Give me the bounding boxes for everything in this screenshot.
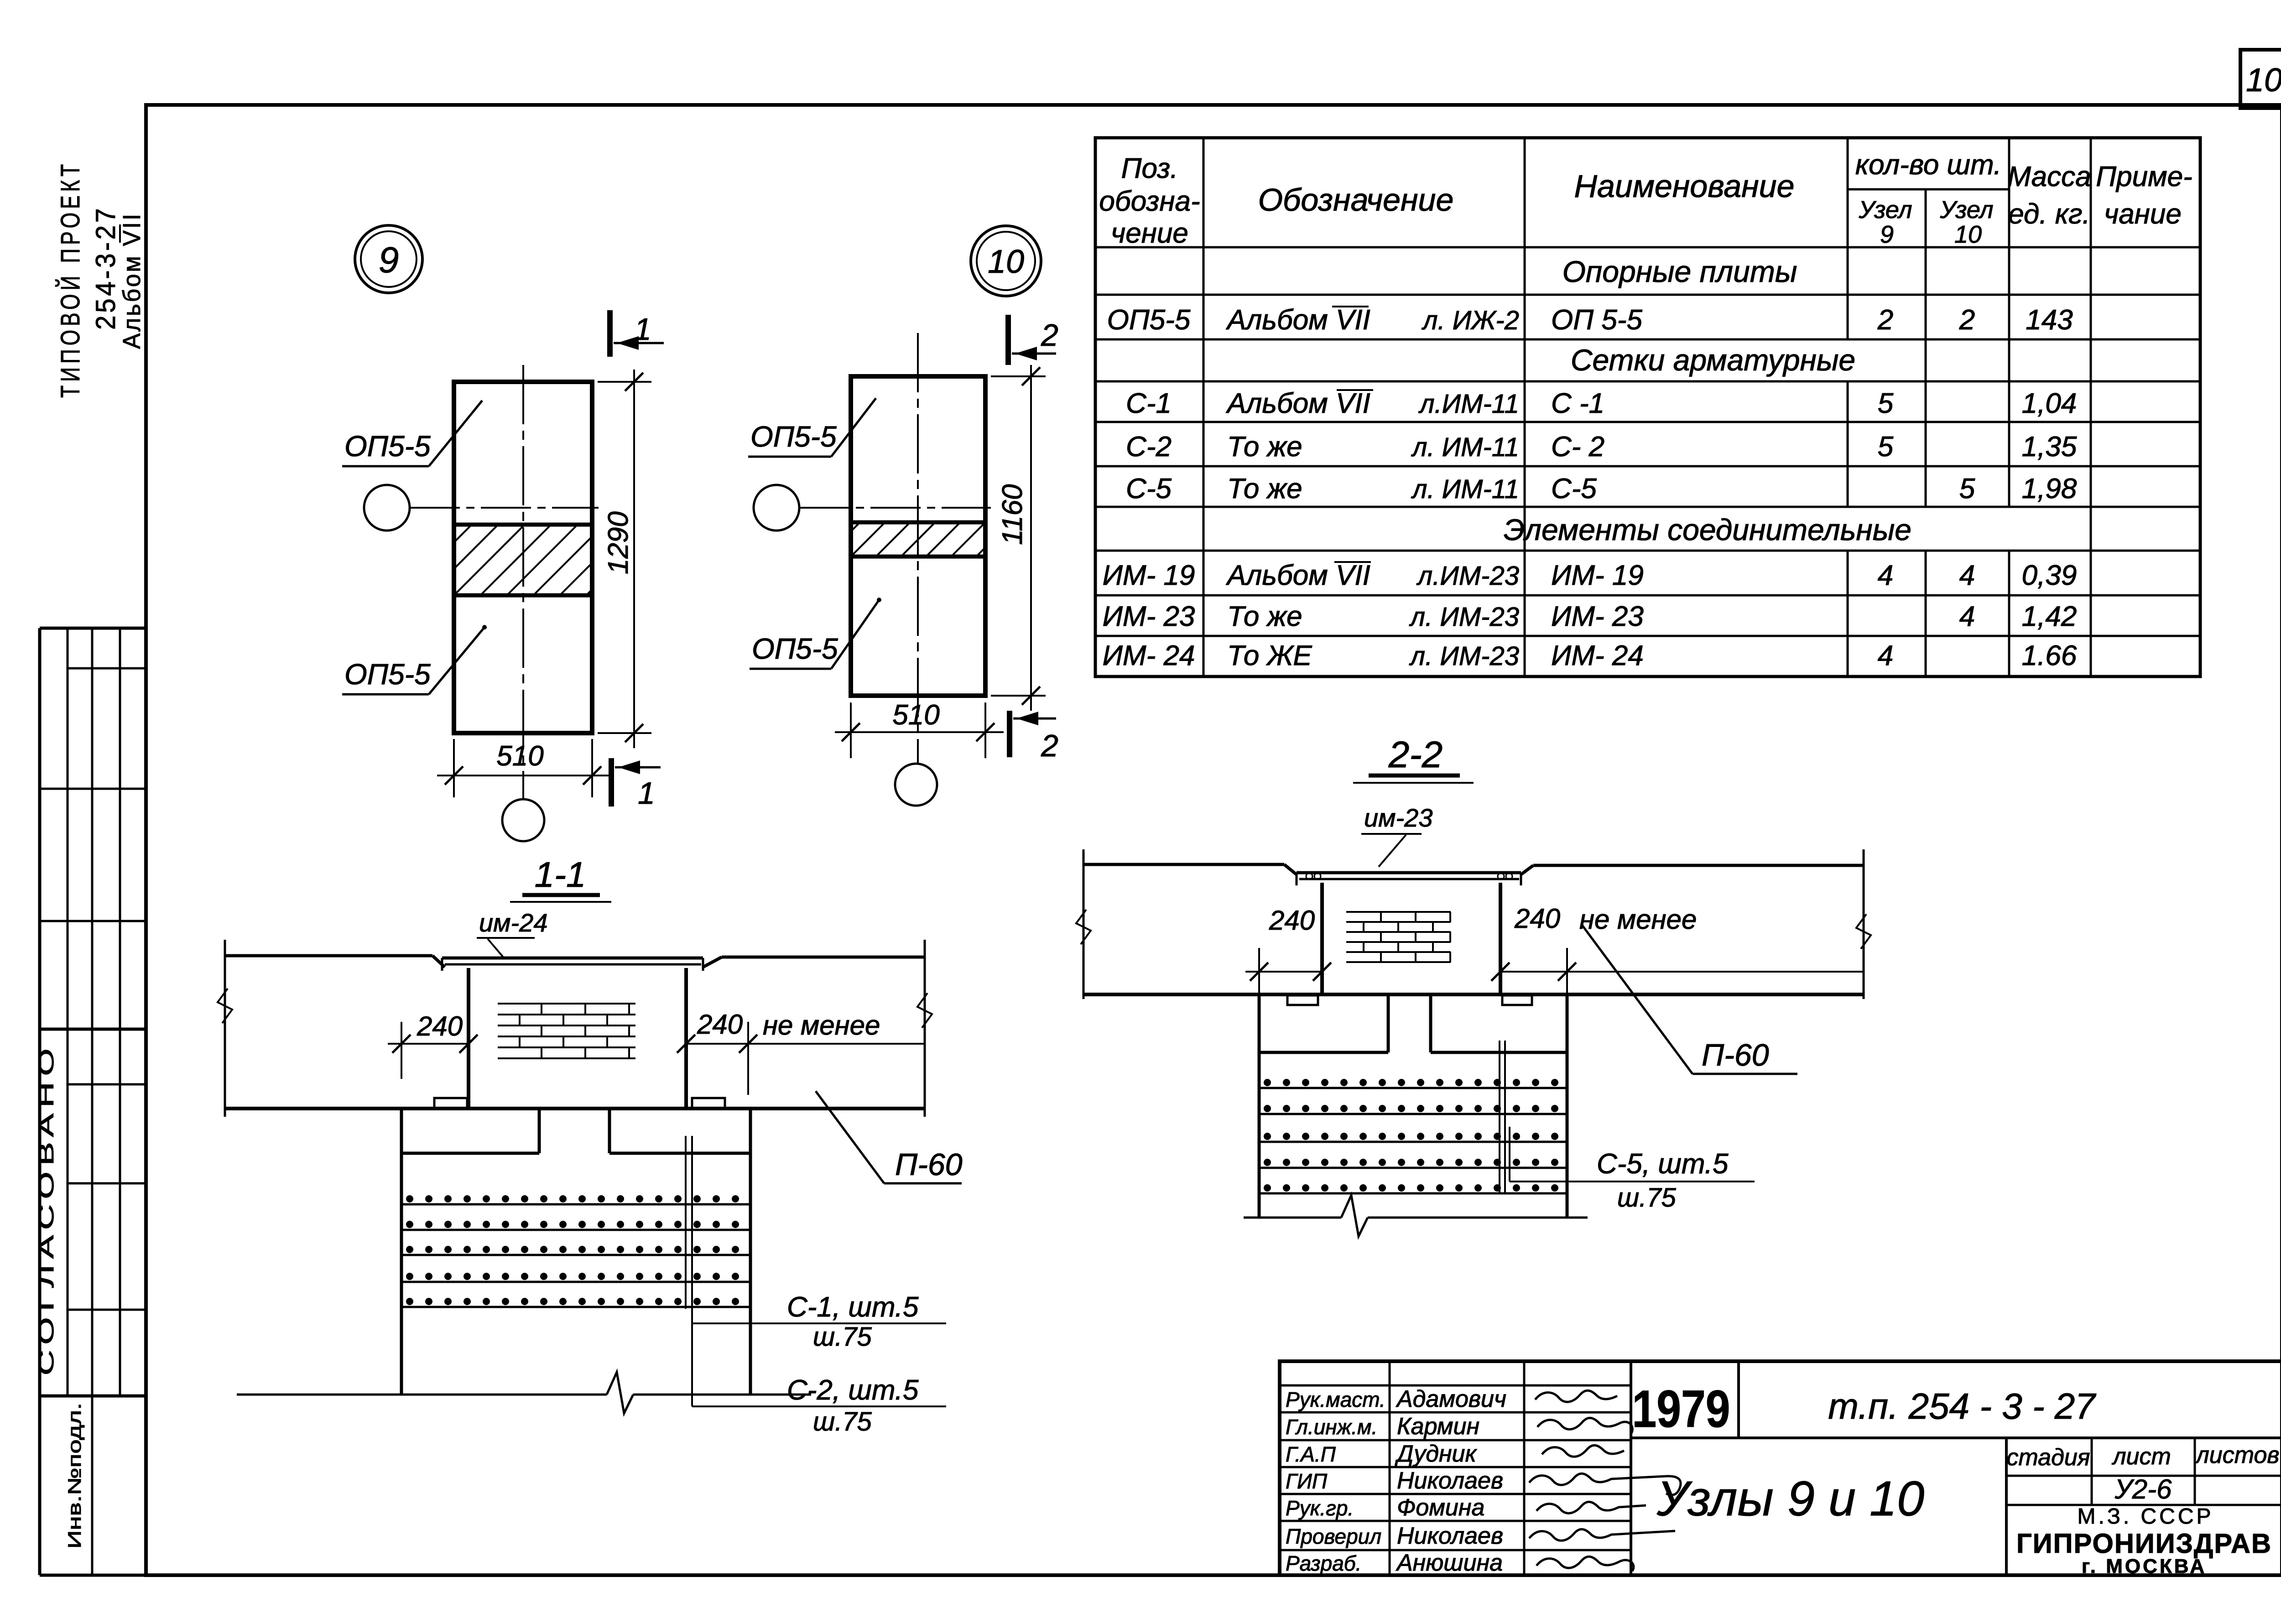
svg-text:2-2: 2-2 <box>1388 734 1443 776</box>
svg-text:Инв.№подл.: Инв.№подл. <box>65 1403 85 1549</box>
svg-text:Дудник: Дудник <box>1395 1441 1477 1467</box>
svg-text:Узел: Узел <box>1939 196 1993 224</box>
svg-text:им-23: им-23 <box>1364 803 1432 832</box>
svg-text:ИМ- 23: ИМ- 23 <box>1551 601 1644 632</box>
svg-text:П-60: П-60 <box>895 1147 963 1182</box>
svg-text:4: 4 <box>1959 601 1975 632</box>
svg-text:Поз.: Поз. <box>1121 153 1178 184</box>
svg-text:5: 5 <box>1959 473 1975 505</box>
svg-text:ИМ- 19: ИМ- 19 <box>1103 560 1195 591</box>
svg-text:не менее: не менее <box>1579 904 1697 935</box>
svg-text:2: 2 <box>1041 729 1058 763</box>
svg-text:Николаев: Николаев <box>1397 1523 1503 1549</box>
svg-text:ИМ- 24: ИМ- 24 <box>1103 640 1195 671</box>
svg-text:10: 10 <box>988 244 1024 280</box>
svg-text:1,98: 1,98 <box>2022 473 2077 505</box>
svg-text:чание: чание <box>2104 198 2182 230</box>
svg-text:Проверил: Проверил <box>1286 1525 1381 1548</box>
svg-text:чение: чение <box>1111 218 1188 249</box>
svg-text:5: 5 <box>1878 388 1894 419</box>
svg-text:С-1: С-1 <box>1126 388 1172 419</box>
svg-text:С-2: С-2 <box>1126 431 1172 463</box>
svg-text:С-5, шт.5: С-5, шт.5 <box>1597 1148 1729 1180</box>
svg-text:240: 240 <box>417 1011 463 1041</box>
svg-text:0,39: 0,39 <box>2022 560 2077 591</box>
svg-text:им-24: им-24 <box>479 908 547 937</box>
svg-text:1979: 1979 <box>1632 1380 1730 1438</box>
svg-text:ОП5-5: ОП5-5 <box>1107 304 1191 336</box>
svg-text:л. ИМ-23: л. ИМ-23 <box>1409 602 1519 632</box>
svg-text:240: 240 <box>1269 905 1315 936</box>
svg-text:Г.А.П: Г.А.П <box>1286 1442 1336 1466</box>
svg-text:ш.75: ш.75 <box>1617 1183 1677 1213</box>
svg-text:ш.75: ш.75 <box>813 1322 872 1352</box>
svg-text:9: 9 <box>379 239 399 280</box>
svg-text:л. ИМ-11: л. ИМ-11 <box>1411 474 1519 504</box>
svg-text:1,35: 1,35 <box>2022 431 2077 463</box>
svg-text:ИМ- 23: ИМ- 23 <box>1103 601 1195 632</box>
svg-text:Обозначение: Обозначение <box>1258 182 1454 218</box>
svg-text:У2-6: У2-6 <box>2114 1474 2172 1504</box>
svg-text:Альбом VII: Альбом VII <box>1225 560 1370 591</box>
svg-text:ОП5-5: ОП5-5 <box>344 658 431 691</box>
svg-text:ИМ- 24: ИМ- 24 <box>1551 640 1644 671</box>
svg-text:510: 510 <box>892 699 939 731</box>
svg-text:ГИПРОНИИЗДРАВ: ГИПРОНИИЗДРАВ <box>2016 1528 2272 1559</box>
svg-text:ОП5-5: ОП5-5 <box>344 430 431 463</box>
svg-text:Адамович: Адамович <box>1396 1386 1506 1412</box>
svg-text:Рук.гр.: Рук.гр. <box>1286 1496 1354 1520</box>
svg-text:4: 4 <box>1878 640 1893 671</box>
svg-text:С- 2: С- 2 <box>1551 431 1604 463</box>
svg-text:Узел: Узел <box>1858 196 1912 224</box>
svg-text:ш.75: ш.75 <box>813 1407 872 1437</box>
svg-text:510: 510 <box>496 740 543 772</box>
svg-text:Масса: Масса <box>2007 161 2091 193</box>
svg-text:1160: 1160 <box>997 484 1028 545</box>
svg-text:С-2, шт.5: С-2, шт.5 <box>787 1374 919 1406</box>
svg-text:254-3-27: 254-3-27 <box>90 206 121 330</box>
svg-text:То же: То же <box>1227 601 1302 632</box>
svg-text:ОП5-5: ОП5-5 <box>750 420 837 453</box>
svg-text:1-1: 1-1 <box>535 854 586 895</box>
svg-text:ГИП: ГИП <box>1286 1469 1328 1493</box>
svg-text:1: 1 <box>634 312 651 347</box>
svg-text:г. МОСКВА: г. МОСКВА <box>2082 1555 2207 1577</box>
svg-text:П-60: П-60 <box>1702 1038 1769 1072</box>
svg-text:л. ИМ-23: л. ИМ-23 <box>1409 641 1519 671</box>
svg-text:ОП5-5: ОП5-5 <box>752 632 838 665</box>
svg-text:4: 4 <box>1959 560 1975 591</box>
svg-text:л.ИМ-23: л.ИМ-23 <box>1417 561 1519 591</box>
svg-text:кол-во шт.: кол-во шт. <box>1855 149 2001 181</box>
svg-text:9: 9 <box>1880 221 1894 248</box>
svg-text:1,04: 1,04 <box>2022 388 2077 419</box>
svg-text:1.66: 1.66 <box>2022 640 2077 671</box>
svg-text:СОГЛАСОВАНО: СОГЛАСОВАНО <box>34 1042 58 1375</box>
svg-text:листов: листов <box>2194 1442 2279 1468</box>
svg-text:Рук.маст.: Рук.маст. <box>1286 1388 1385 1411</box>
svg-text:Альбом VII: Альбом VII <box>118 212 146 349</box>
svg-text:Приме-: Приме- <box>2096 161 2192 193</box>
svg-text:т.п. 254 - 3 - 27: т.п. 254 - 3 - 27 <box>1828 1386 2096 1426</box>
svg-text:ТИПОВОЙ ПРОЕКТ: ТИПОВОЙ ПРОЕКТ <box>56 161 85 398</box>
svg-text:Кармин: Кармин <box>1397 1413 1479 1440</box>
svg-text:Николаев: Николаев <box>1397 1468 1503 1494</box>
svg-text:То же: То же <box>1227 431 1302 463</box>
svg-text:10: 10 <box>2246 62 2281 99</box>
svg-text:ед. кг.: ед. кг. <box>2008 198 2090 230</box>
svg-text:Альбом VII: Альбом VII <box>1225 388 1370 419</box>
svg-text:С-5: С-5 <box>1551 473 1597 505</box>
svg-text:Гл.инж.м.: Гл.инж.м. <box>1286 1415 1377 1439</box>
svg-text:С-1, шт.5: С-1, шт.5 <box>787 1291 919 1323</box>
svg-text:143: 143 <box>2026 304 2073 336</box>
svg-text:2: 2 <box>1041 318 1058 353</box>
svg-text:Опорные плиты: Опорные плиты <box>1562 255 1797 288</box>
svg-text:л.ИМ-11: л.ИМ-11 <box>1418 389 1519 419</box>
svg-text:Фомина: Фомина <box>1397 1494 1484 1521</box>
svg-text:С -1: С -1 <box>1551 388 1604 419</box>
svg-text:Альбом VII: Альбом VII <box>1225 304 1370 336</box>
svg-text:То ЖЕ: То ЖЕ <box>1227 640 1312 671</box>
svg-text:Узлы 9 и 10: Узлы 9 и 10 <box>1656 1471 1924 1526</box>
svg-text:4: 4 <box>1878 560 1893 591</box>
svg-text:240: 240 <box>697 1009 743 1040</box>
svg-text:1290: 1290 <box>603 511 634 574</box>
svg-text:лист: лист <box>2111 1443 2171 1470</box>
svg-text:Наименование: Наименование <box>1574 168 1794 204</box>
svg-text:л. ИМ-11: л. ИМ-11 <box>1411 432 1519 462</box>
svg-text:ОП 5-5: ОП 5-5 <box>1551 304 1643 336</box>
svg-text:1,42: 1,42 <box>2022 601 2077 632</box>
svg-text:М.З. СССР: М.З. СССР <box>2078 1504 2214 1529</box>
svg-text:2: 2 <box>1877 304 1893 336</box>
svg-text:Анюшина: Анюшина <box>1396 1550 1503 1576</box>
svg-text:240: 240 <box>1514 903 1560 934</box>
svg-text:С-5: С-5 <box>1126 473 1172 505</box>
svg-text:не менее: не менее <box>763 1010 880 1041</box>
svg-text:Разраб.: Разраб. <box>1286 1551 1361 1575</box>
svg-text:л. ИЖ-2: л. ИЖ-2 <box>1422 306 1519 335</box>
svg-text:стадия: стадия <box>2006 1444 2090 1471</box>
svg-text:Сетки арматурные: Сетки арматурные <box>1571 343 1855 377</box>
svg-text:2: 2 <box>1959 304 1975 336</box>
svg-text:ИМ- 19: ИМ- 19 <box>1551 560 1644 591</box>
svg-text:Элементы соединительные: Элементы соединительные <box>1504 513 1911 547</box>
svg-text:обозна-: обозна- <box>1099 186 1200 217</box>
svg-text:То же: То же <box>1227 473 1302 505</box>
svg-text:5: 5 <box>1878 431 1894 463</box>
svg-text:1: 1 <box>638 776 655 811</box>
svg-text:10: 10 <box>1954 221 1982 248</box>
